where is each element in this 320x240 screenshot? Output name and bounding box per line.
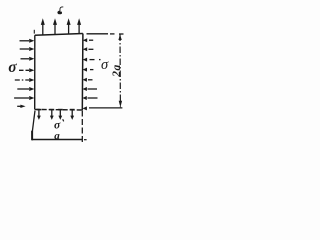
right load arrow 4 [83,68,94,72]
right load arrow 5 [83,78,93,82]
top load arrow 3 [67,18,71,34]
tick near bottom sigma [63,119,64,121]
bottom dimension right extension line [81,111,83,143]
right dimension bottom extension line [89,107,122,109]
right dimension bottom arrowhead [119,101,122,107]
bottom dimension line [32,139,82,141]
left load arrow 7 [14,96,34,100]
bottom load arrow 3 [58,110,63,120]
right load arrow 3 [83,58,101,62]
right load arrow 7 [82,96,97,100]
plate right edge [81,34,84,111]
bottom load arrow 1 [37,110,42,120]
tick above top-left corner [33,30,35,34]
right load arrow 8 [83,106,87,110]
plate left edge [34,35,36,109]
right load arrow 1 [83,38,93,42]
svg-text:σ: σ [101,57,109,73]
left load arrow 5 [15,78,35,82]
left load arrow 3 [21,57,35,61]
svg-text:a: a [54,130,60,142]
svg-text:2a: 2a [111,64,123,78]
left load arrow 1 [20,39,35,43]
right load arrow 2 [83,47,94,51]
bottom load arrow 4 [70,110,75,120]
top load arrow 2 [53,18,57,34]
right dimension top arrowhead [118,34,121,40]
bottom dimension tail dash [84,139,87,141]
plate bottom edge (dashed) [35,108,83,111]
bottom dimension left tick [31,131,33,141]
top load arrow 4 [77,18,81,33]
left load arrow 8 [17,105,25,108]
bottom dimension left extension line [32,111,35,132]
right load arrow 6 [83,87,98,91]
plate top edge [35,34,83,36]
left load arrow 2 [20,47,35,51]
svg-text:σ: σ [8,59,17,76]
right dimension line [119,35,121,108]
right dimension top extension line [87,33,124,35]
bottom load arrow 2 [49,110,54,120]
top stress glyph label [57,6,63,14]
left load arrow 4 [19,68,34,72]
top load arrow 1 [41,18,45,35]
left load arrow 6 [17,87,34,91]
